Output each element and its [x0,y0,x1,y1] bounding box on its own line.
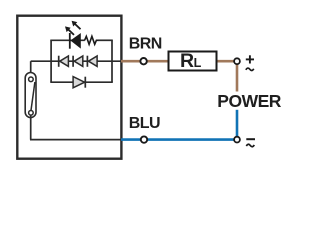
wire: switch bottom lead [30,115,32,140]
svg-text:R: R [180,50,194,72]
LED (indicator, cathode bar) [69,33,71,49]
plus symbol [246,58,254,60]
wire: main middle wire (switch node to housing right edge) [31,60,122,62]
minus symbol [246,138,255,140]
brown wire load to plus terminal [217,60,238,63]
tilde under plus [246,68,254,70]
tilde under minus [246,144,254,146]
LED emission arrow 2 [68,29,74,35]
svg-text:L: L [194,56,202,70]
diode D1 triangle [60,56,69,66]
switch lever [31,82,35,111]
terminal BLU [141,136,147,142]
LED emission arrow 1 [75,24,81,30]
resistor (series with LED) [85,36,99,44]
wire: bottom horizontal to housing edge [30,139,122,141]
internal network frame (left edge) [50,40,52,82]
terminal plus (power) [234,58,240,64]
load resistor RL box [169,52,217,71]
LED triangle [71,34,81,48]
terminal minus (power) [234,137,240,143]
sensor housing box [17,16,121,159]
svg-text:BLU: BLU [129,115,160,132]
switch element oval [25,73,36,118]
blue wire BLU horizontal [121,138,237,141]
svg-text:POWER: POWER [217,91,281,111]
brown wire vertical to POWER [236,61,239,91]
wire: top branch right segment [98,39,113,41]
switch bottom contact [29,111,34,116]
wire: top branch left segment [50,39,85,41]
wire: switch top lead [30,61,32,78]
internal network frame (right edge) [111,40,113,82]
diode D4 (bottom, triangle) [73,77,85,88]
diode D2 (cathode bar) [72,56,74,67]
switch top contact [29,77,34,82]
brown wire BRN to load [121,60,169,63]
diode D4 cathode bar [84,77,86,88]
diode D3 triangle [89,56,98,66]
wire: bottom branch of network [50,81,113,83]
svg-text:BRN: BRN [129,36,162,53]
diode D2 triangle [74,56,83,66]
diode D1 (cathode bar) [58,56,60,67]
diode D3 (cathode bar) [86,56,88,67]
terminal BRN [140,58,146,64]
blue wire vertical from POWER [236,110,239,140]
